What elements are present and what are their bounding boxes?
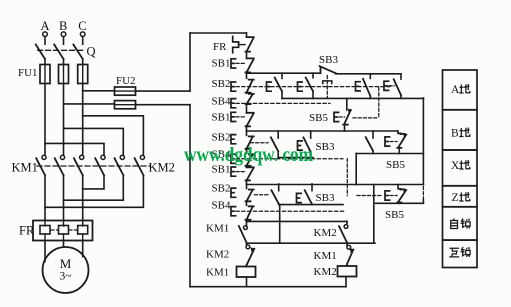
SB1-2 actuator E (231, 112, 236, 121)
X-block bottom rail (279, 204, 343, 206)
svg-text:SB4: SB4 (212, 200, 231, 212)
annotation box A (443, 70, 478, 110)
KM2 aux NO blade (339, 226, 347, 242)
SB5-3 actuator E (385, 191, 390, 200)
switch Q linkage dashed (38, 49, 86, 51)
contact SB3-2 top tick (310, 131, 312, 138)
KM2 contact 1 blade (95, 158, 104, 175)
rail1 right part (336, 73, 402, 75)
wire (346, 242, 348, 245)
svg-text:www.dgdqw. com: www.dgdqw. com (184, 144, 313, 166)
svg-text:FU1: FU1 (18, 67, 38, 79)
right feeder vertical (422, 98, 424, 185)
SB5-3 bottom (398, 202, 400, 205)
wire (246, 265, 248, 267)
annotation box Z (443, 186, 478, 207)
svg-text:KM1: KM1 (314, 250, 337, 262)
FR heater element 2 (59, 226, 69, 235)
KM2 NC blade (247, 249, 255, 265)
SB5-3 linkage dash (357, 195, 381, 197)
SB2-3 NO blade (246, 190, 254, 202)
SB1 actuator E (231, 59, 236, 68)
SB1-3 NC blade (246, 167, 254, 180)
SB4-2 NO blade (246, 154, 254, 166)
terminal circle phase C (80, 32, 85, 37)
SB1-3 actuator E (231, 167, 236, 176)
rail1 left part (247, 72, 321, 74)
control feed bus from FU2-1 (189, 33, 191, 91)
B-block right bottom bar (356, 153, 423, 155)
SB3 vertical linkage dash (326, 76, 328, 98)
KM1 aux NO blade (239, 226, 247, 243)
KM1 NC blade (347, 250, 353, 265)
SB5-3 linkage dash right (390, 195, 397, 197)
jumper phase B to KM2-2 (64, 128, 124, 155)
thermal relay FR box (33, 221, 93, 241)
svg-text:SB2: SB2 (212, 183, 231, 195)
FR actuator link (239, 44, 245, 46)
box text hu-suo (449, 248, 459, 257)
contact d NO blade (363, 79, 370, 96)
svg-text:A: A (41, 19, 50, 33)
svg-text:X: X (451, 160, 460, 172)
wire below terminal B (63, 37, 65, 45)
contact b NO blade (275, 78, 282, 92)
SB2-3 top tick (246, 184, 248, 188)
coil KM1 (237, 267, 256, 278)
svg-text:Z: Z (452, 192, 459, 204)
svg-text:KM1: KM1 (12, 160, 38, 174)
KM1 contact 1 terminal circle (42, 155, 46, 159)
box text zi-suo (451, 219, 458, 229)
contact e linkage dash (389, 85, 395, 87)
wire below terminal A (44, 37, 46, 45)
SB5 contact top wire (346, 98, 348, 110)
FR thermal actuator zigzag (233, 36, 239, 52)
SB5 actuator E (334, 112, 339, 121)
SB5-3 bottom bar (376, 202, 424, 204)
SB5-3 bar end tick (422, 200, 424, 204)
svg-text:SB1: SB1 (212, 112, 231, 124)
KM1 contact 3 terminal circle (80, 155, 84, 159)
fuse FU2 element 1 (115, 87, 136, 95)
motor M 3~ circle (43, 247, 89, 293)
wire to KM2 interlock (246, 243, 248, 245)
contact X-h top tick (278, 184, 280, 191)
svg-text:SB4: SB4 (212, 96, 231, 108)
wire (246, 104, 248, 113)
contact d top tick (369, 74, 371, 79)
svg-text:B: B (59, 19, 67, 33)
phase B vertical wire (63, 84, 65, 156)
contact B-h bottom (277, 151, 279, 157)
SB3 linkage coupler (323, 81, 332, 84)
SB3-3 actuator E (297, 193, 302, 202)
X-block drop to rail5 (279, 205, 281, 244)
FR heater element 3 (78, 226, 88, 235)
FR NC contact blade (246, 37, 254, 52)
KM2 contact 2 blade (115, 158, 124, 175)
fuse FU1 element 1 (40, 65, 50, 84)
B-block left bottom bar (278, 157, 313, 159)
KM1 contact 2 blade (55, 158, 64, 175)
SB2-2 actuator E (231, 135, 236, 144)
contact c bottom wire (312, 91, 314, 98)
SB4-3 NO blade (246, 206, 254, 220)
motor lead C (82, 241, 84, 257)
FU2-1 wire through fuse (115, 90, 136, 92)
contact c top tick (312, 73, 314, 78)
svg-text:3~: 3~ (60, 271, 72, 283)
svg-text:SB3: SB3 (319, 54, 338, 66)
FR heater element 1 (40, 226, 50, 235)
contact e NO blade (394, 79, 401, 95)
KM2-2 return to phase B (64, 175, 124, 200)
wire (246, 242, 248, 245)
SB5 contact bottom wire (344, 125, 346, 131)
coil KM2 (338, 266, 357, 277)
SB5-2 actuator E (385, 137, 390, 146)
KM2 coil bottom wire (345, 277, 347, 287)
wire (246, 220, 248, 222)
SB3-3 bottom (311, 203, 313, 205)
KM2 contact 3 blade (135, 158, 144, 175)
B-block drop to rail3 (355, 154, 357, 185)
SB4 NO blade (246, 94, 254, 104)
phase A vertical wire (44, 84, 46, 156)
KM2 contact 1 terminal circle (101, 155, 105, 159)
wire below terminal C (82, 37, 84, 45)
KM2 contact 2 terminal circle (120, 155, 124, 159)
rail5 interlock cross rail (247, 242, 376, 244)
KM1-KM2 linkage dashed (37, 165, 151, 167)
phase C vertical wire (82, 84, 84, 156)
KM2-3 return to phase A (45, 175, 143, 207)
contact B-h top tick (277, 131, 279, 138)
SB5-2 top step (398, 131, 401, 133)
SB2-2 top tick (246, 131, 248, 135)
KM2 interlock terminal circle (246, 245, 250, 249)
wire (246, 126, 248, 131)
annotation box X (443, 150, 478, 186)
contact e top tick (400, 74, 402, 79)
contact f top tick (372, 131, 374, 138)
rail4 to KM2 branch (247, 220, 348, 222)
contact X-h bottom (278, 203, 280, 206)
KM2 branch top wire (346, 221, 348, 223)
jumper phase A to KM2-1 (45, 143, 104, 155)
SB1-2 NC blade (246, 113, 254, 127)
wire FU2-2 to return bus (136, 104, 191, 106)
SB5-2 bottom (398, 148, 400, 154)
wire to fuse C (82, 59, 84, 65)
SB1 NC blade (246, 58, 254, 72)
SB4-3 actuator E (231, 207, 236, 216)
phase C wire to FR (82, 175, 84, 220)
contact X-h NO blade (271, 190, 278, 204)
annotation box ZS (443, 207, 478, 240)
SB1-3 linkage dash (236, 171, 245, 173)
SB2 actuator E (231, 82, 236, 91)
wire (246, 33, 248, 37)
contact f bottom (372, 151, 374, 154)
svg-text:SB1: SB1 (212, 58, 231, 70)
annotation box HS (443, 240, 478, 267)
rail2 B location feeder (247, 130, 398, 132)
SB1 linkage dash (236, 62, 245, 64)
svg-text:SB3: SB3 (316, 141, 335, 153)
fuse FU2 element 2 (115, 101, 136, 109)
svg-text:SB2: SB2 (212, 78, 231, 90)
wire (246, 52, 248, 59)
svg-text:Q: Q (87, 45, 96, 59)
SB3-2 actuator E (298, 141, 303, 150)
control bottom rail (190, 286, 346, 288)
fuse FU1 element 2 (59, 65, 69, 84)
svg-text:M: M (60, 256, 72, 271)
switch Q blade C (73, 45, 82, 60)
SB5-3 blade with arrow (397, 190, 406, 203)
contact c NO blade (306, 78, 313, 92)
wire (246, 180, 248, 184)
svg-text:KM1: KM1 (206, 223, 229, 235)
switch Q blade A (36, 45, 45, 60)
SB4 linkage dashed row (236, 102, 330, 104)
svg-text:KM2: KM2 (314, 266, 337, 278)
KM1 contact 2 terminal circle (60, 155, 64, 159)
FU2-2 wire through fuse (115, 104, 136, 106)
svg-text:KM2: KM2 (149, 161, 175, 175)
wire (246, 149, 248, 153)
SB3-2 NO blade (303, 137, 310, 152)
KM1 contact 1 blade (36, 158, 45, 175)
KM1 aux terminal circle (244, 226, 248, 230)
SB5 vertical linkage dash (378, 88, 380, 118)
SB3 linkage dashed row (236, 86, 391, 88)
svg-text:SB5: SB5 (386, 159, 405, 171)
SB5-2 blade with arrow (397, 134, 406, 148)
KM2-1 return to phase C (83, 175, 104, 189)
contact f NO blade (366, 137, 373, 151)
KM1 interlock terminal circle (347, 245, 351, 249)
fuse FU1 element 3 (78, 65, 88, 84)
SB1-2 linkage dash (236, 116, 245, 118)
svg-text:KM1: KM1 (206, 267, 229, 279)
KM1 contact 3 blade (74, 158, 83, 175)
SB3-3 NO blade (305, 190, 312, 204)
FR heater link dashed (51, 229, 58, 231)
wire to KM1 aux (246, 221, 248, 225)
svg-text:C: C (78, 19, 86, 33)
branch B to FU2 lower (64, 103, 115, 105)
branch C to FU2 upper (83, 90, 115, 92)
SB5-3 top step (398, 185, 401, 189)
control return bus (189, 105, 191, 287)
contact b actuator E (267, 82, 272, 91)
contact B-h NO blade (271, 137, 278, 151)
SB5 linkage dash (339, 116, 345, 118)
motor lead A (44, 241, 46, 262)
SB4-2 actuator E (231, 154, 236, 163)
wire to fuse A (44, 59, 46, 65)
svg-text:FR: FR (213, 41, 227, 53)
wire (246, 71, 248, 74)
phase B wire to FR (63, 175, 65, 220)
contact e actuator E (384, 81, 389, 90)
KM2 aux terminal circle (344, 225, 348, 229)
SB2-3 actuator E (231, 188, 236, 197)
SB4-2 linkage dashed row (236, 158, 343, 160)
A-block bottom rail (282, 97, 423, 99)
contact b top tick (281, 73, 283, 78)
contact SB3-3 top tick (311, 184, 313, 191)
linkage dash to contact (251, 142, 269, 144)
wire (346, 264, 348, 266)
wire (246, 166, 248, 168)
SB5-3 feeder vertical (373, 185, 375, 244)
FR heater link dashed 2 (69, 229, 77, 231)
svg-text:SB2: SB2 (212, 132, 231, 144)
svg-text:KM2: KM2 (314, 227, 337, 239)
SB2 top terminal tick (246, 73, 248, 78)
linkage dash to contact (254, 194, 268, 196)
SB4 actuator E (231, 99, 236, 108)
svg-text:B: B (451, 128, 459, 140)
SB2-2 NO blade (246, 136, 254, 148)
svg-text:FU2: FU2 (116, 75, 136, 87)
wire to KM1 interlock (346, 243, 348, 245)
control top rail (190, 32, 247, 34)
contact b bottom wire (281, 91, 283, 98)
KM1 coil bottom wire (246, 277, 248, 287)
SB5 linkage dash horizontal (353, 117, 379, 119)
svg-text:SB5: SB5 (385, 209, 404, 221)
contact c actuator E (298, 82, 303, 91)
SB4 vertical linkage dash (346, 159, 348, 196)
wire (246, 201, 248, 205)
terminal circle phase A (43, 32, 48, 37)
rail3 X location feeder (247, 184, 424, 186)
SB4-3 linkage dashed row (236, 210, 345, 212)
SB5-2 linkage dash (390, 141, 397, 143)
SB2 NO blade (246, 80, 254, 93)
motor lead B (63, 241, 65, 248)
terminal circle phase B (61, 32, 66, 37)
wire to fuse B (63, 59, 65, 65)
svg-text:SB3: SB3 (316, 192, 335, 204)
wire FU2-1 to control bus (136, 90, 191, 92)
SB5 NO blade (343, 110, 351, 125)
svg-text:A: A (451, 84, 460, 96)
switch Q blade B (54, 45, 63, 60)
annotation box B (443, 110, 478, 150)
svg-text:SB5: SB5 (309, 112, 328, 124)
SB3-2 bottom (310, 152, 312, 158)
contact e bottom wire (400, 95, 402, 98)
phase A wire to FR (44, 175, 46, 220)
contact d bottom wire (369, 96, 371, 98)
wire (246, 92, 248, 95)
jumper phase C to KM2-3 (83, 116, 144, 155)
contact d actuator E (356, 82, 361, 91)
svg-text:KM2: KM2 (206, 249, 229, 261)
SB3 NC contact in rail1 (320, 66, 337, 73)
SB5 linkage dashed vertical (422, 187, 424, 200)
KM2 contact 3 terminal circle (140, 155, 144, 159)
